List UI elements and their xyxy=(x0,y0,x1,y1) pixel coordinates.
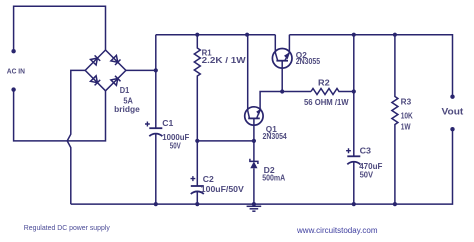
bridge diode top-right xyxy=(111,55,121,65)
svg-text:C2: C2 xyxy=(203,175,214,184)
wire: bridge right vertex to C1 branch xyxy=(126,69,156,71)
junction: Q1 collector rail xyxy=(245,33,249,37)
bridge diode bottom-right xyxy=(111,76,121,86)
junction: C2 ground xyxy=(195,202,199,206)
Vout upper terminal xyxy=(450,95,454,99)
svg-text:R2: R2 xyxy=(318,78,330,87)
wire: unregulated top rail (left segment) xyxy=(156,34,275,36)
wire: regulated top rail (right segment) to Vout upper terminal xyxy=(289,35,452,97)
zener diode D2 xyxy=(250,141,258,204)
capacitor C1 plates xyxy=(149,128,162,136)
AC IN upper terminal xyxy=(11,49,15,53)
junction: Q2 base / R2 xyxy=(280,89,284,93)
transistor Q1 xyxy=(245,107,263,125)
junction: R1 bottom node xyxy=(195,139,199,143)
svg-text:2.2K / 1W: 2.2K / 1W xyxy=(202,56,246,65)
transistor Q2 collector lead from left rail xyxy=(274,35,276,53)
bridge diode top-left xyxy=(91,55,101,65)
bridge diode bottom-left xyxy=(91,76,101,86)
svg-text:D1: D1 xyxy=(120,86,130,95)
svg-text:2N3055: 2N3055 xyxy=(296,57,321,66)
transistor Q1 emitter lead to R2 node xyxy=(260,92,311,110)
svg-text:56 OHM /1W: 56 OHM /1W xyxy=(304,98,349,107)
wire: C1 branch vertical (rail corner down to C1) xyxy=(155,35,157,129)
transistor Q1 collector lead from rail xyxy=(246,35,249,111)
resistor R3 xyxy=(392,35,398,204)
resistor R2 xyxy=(311,89,354,95)
svg-text:100uF/50V: 100uF/50V xyxy=(201,185,245,194)
transistor Q1 base lead xyxy=(253,118,255,140)
svg-text:bridge: bridge xyxy=(114,105,140,114)
transistor Q2 base lead xyxy=(281,61,283,92)
bridge rectifier D1 diamond xyxy=(85,50,126,91)
junction: D2 ground xyxy=(252,202,256,206)
junction: zener top node xyxy=(252,139,256,143)
wire: C3 branch vertical xyxy=(353,35,355,204)
svg-text:AC IN: AC IN xyxy=(7,66,25,75)
capacitor C2 plus sign xyxy=(191,176,196,181)
junction: C1 ground xyxy=(154,202,158,206)
wire: R1/zener node connecting line xyxy=(197,140,254,142)
capacitor C1 plus sign xyxy=(145,122,150,127)
capacitor C2 lead and to ground xyxy=(196,141,198,204)
transistor Q2 xyxy=(272,49,292,69)
svg-text:R3: R3 xyxy=(401,98,412,107)
capacitor C2 plates xyxy=(191,186,204,194)
AC IN lower terminal xyxy=(11,87,15,91)
junction: C3 rail xyxy=(352,33,356,37)
svg-text:50V: 50V xyxy=(170,142,181,151)
ground symbol xyxy=(247,206,262,211)
wire: C1 to ground rail xyxy=(155,133,157,204)
transistor Q2 emitter lead to right rail xyxy=(288,35,290,53)
junction: R3 ground xyxy=(393,202,397,206)
wire: upper AC terminal up-over to bridge top vertex xyxy=(14,6,106,51)
junction: R3 rail xyxy=(393,33,397,37)
svg-text:2N3054: 2N3054 xyxy=(263,132,288,141)
svg-text:1W: 1W xyxy=(401,123,411,132)
junction: C3 ground xyxy=(352,202,356,206)
svg-text:10K: 10K xyxy=(401,112,413,121)
wire: bridge left vertex to ground rail with hop over AC wire xyxy=(67,70,85,204)
junction: bridge right / C1 branch xyxy=(154,68,158,72)
wire: ground rail xyxy=(71,129,453,204)
svg-text:www.circuitstoday.com: www.circuitstoday.com xyxy=(296,226,378,235)
svg-text:C3: C3 xyxy=(360,147,372,156)
junction: R1 top xyxy=(195,33,199,37)
svg-text:500mA: 500mA xyxy=(262,173,285,182)
svg-text:Vout: Vout xyxy=(442,107,464,117)
junction: R2 right / C3 branch xyxy=(352,89,356,93)
svg-text:C1: C1 xyxy=(162,119,173,128)
resistor R1 xyxy=(194,35,200,141)
capacitor C3 plus sign xyxy=(346,148,351,153)
capacitor C3 plates xyxy=(347,156,360,164)
wire: lower AC terminal down-over to bridge bottom vertex xyxy=(14,90,106,141)
Vout lower terminal xyxy=(450,127,454,131)
svg-text:50V: 50V xyxy=(360,170,374,179)
svg-text:Regulated DC power supply: Regulated DC power supply xyxy=(24,223,110,232)
